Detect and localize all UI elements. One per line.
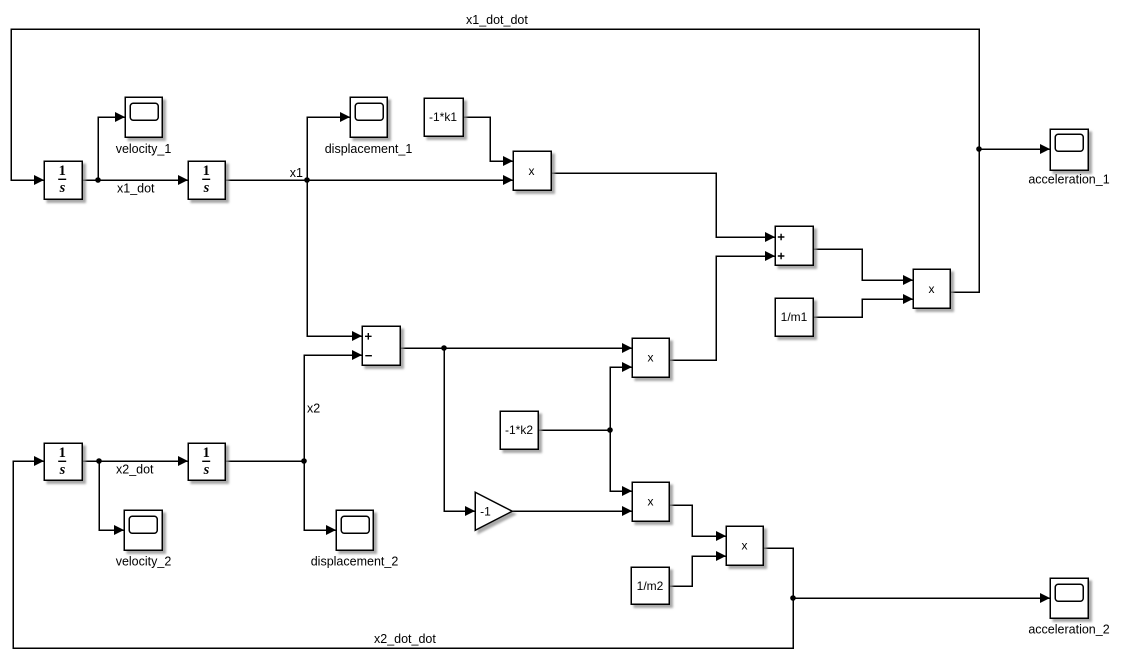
svg-text:x2_dot_dot: x2_dot_dot xyxy=(374,632,436,646)
svg-text:x: x xyxy=(742,539,748,553)
svg-text:x: x xyxy=(648,495,654,509)
svg-text:x2_dot: x2_dot xyxy=(116,463,154,477)
svg-text:velocity_2: velocity_2 xyxy=(116,555,172,569)
svg-text:-1*k1: -1*k1 xyxy=(429,110,457,124)
svg-text:x: x xyxy=(929,282,935,296)
svg-text:1/m2: 1/m2 xyxy=(637,579,664,593)
svg-text:1: 1 xyxy=(203,163,210,179)
svg-text:1: 1 xyxy=(203,445,210,461)
svg-text:x1_dot: x1_dot xyxy=(117,182,155,196)
svg-text:x2: x2 xyxy=(307,402,320,416)
svg-text:x: x xyxy=(529,164,535,178)
svg-text:x1: x1 xyxy=(290,166,303,180)
svg-text:displacement_1: displacement_1 xyxy=(325,142,413,156)
svg-text:velocity_1: velocity_1 xyxy=(116,142,172,156)
svg-text:x1_dot_dot: x1_dot_dot xyxy=(466,13,528,27)
svg-text:s: s xyxy=(59,180,66,196)
svg-text:acceleration_1: acceleration_1 xyxy=(1028,172,1109,186)
svg-text:s: s xyxy=(203,180,210,196)
svg-text:1: 1 xyxy=(59,445,66,461)
svg-text:x: x xyxy=(648,351,654,365)
svg-text:s: s xyxy=(59,462,66,478)
svg-text:s: s xyxy=(203,462,210,478)
svg-text:-1*k2: -1*k2 xyxy=(505,423,533,437)
svg-text:acceleration_2: acceleration_2 xyxy=(1028,622,1109,636)
svg-text:-1: -1 xyxy=(480,505,491,519)
svg-text:displacement_2: displacement_2 xyxy=(311,555,399,569)
svg-text:1/m1: 1/m1 xyxy=(781,310,808,324)
svg-text:1: 1 xyxy=(59,163,66,179)
